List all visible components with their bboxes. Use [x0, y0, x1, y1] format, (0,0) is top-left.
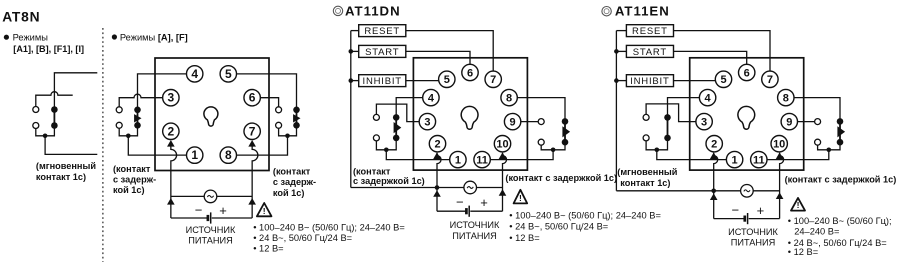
svg-text:4: 4 — [191, 67, 198, 81]
svg-text:1: 1 — [732, 154, 738, 166]
keyhole AT11DN — [461, 106, 478, 129]
pin 4 AT11EN — [699, 89, 715, 105]
svg-text:+: + — [219, 203, 227, 218]
svg-text:контакт 1с): контакт 1с) — [620, 178, 670, 188]
contact K3 common joiner — [376, 138, 396, 150]
wire K1 common to pin1 — [128, 136, 194, 155]
svg-text:3: 3 — [701, 116, 707, 128]
svg-text:1: 1 — [191, 148, 198, 162]
keyhole AT11EN — [738, 106, 755, 129]
wire bottom rail of instantaneous contact — [45, 136, 97, 155]
wire right power vertical EN — [780, 153, 784, 219]
contact K0 fixed terminal top — [33, 107, 39, 113]
svg-text:7: 7 — [767, 74, 773, 86]
pin 5 AT11EN — [715, 71, 731, 87]
contact K1 moving dot top — [134, 107, 141, 114]
junction K6 common — [827, 148, 832, 153]
svg-text:• 24 В~, 50/60 Гц/24 В=: • 24 В~, 50/60 Гц/24 В= — [509, 222, 608, 232]
contact K2 movable bar — [296, 110, 298, 126]
svg-text:10: 10 — [773, 138, 785, 150]
svg-text:+: + — [757, 203, 765, 218]
svg-text:кой 1с): кой 1с) — [113, 185, 145, 195]
svg-text:−: − — [732, 203, 740, 218]
contact K4 fixed terminal bottom — [538, 139, 544, 145]
svg-text:Режимы: Режимы — [13, 32, 49, 42]
pin 3 AT8N — [163, 90, 179, 106]
svg-text:INHIBIT: INHIBIT — [630, 76, 669, 87]
contact K3 movable bar — [395, 117, 397, 137]
svg-text:5: 5 — [720, 74, 726, 86]
junction START common DN — [349, 49, 354, 54]
contact K0 moving dot top — [51, 106, 58, 113]
contact K4 moving dot bottom — [562, 139, 569, 146]
svg-text:(мгновенный: (мгновенный — [36, 161, 96, 171]
wire RESET to pin7 EN — [674, 31, 771, 80]
contact K1 movable bar — [137, 110, 139, 126]
wire control common vertical DN — [350, 31, 352, 188]
svg-text:INHIBIT: INHIBIT — [363, 76, 402, 87]
pin 4 AT11DN — [423, 89, 439, 105]
pin 8 AT11EN — [778, 89, 794, 105]
contact K6 fixed terminal bottom — [815, 139, 821, 145]
battery symbol AT8N — [207, 215, 210, 221]
svg-text:−: − — [195, 202, 203, 217]
battery symbol EN — [743, 216, 746, 222]
arrow to pin10 EN — [776, 152, 784, 159]
contact K2 fixed terminal bottom — [276, 122, 282, 128]
wire pin4 feed to left contact EN — [668, 98, 708, 118]
pin 6 AT11EN — [739, 64, 755, 80]
wire K5 common to pin1 EN — [657, 150, 735, 160]
svg-text:!: ! — [519, 193, 522, 203]
contact K6 moving dot bottom — [837, 139, 844, 146]
pin 10 AT11DN — [494, 136, 510, 152]
pin 8 AT8N — [220, 147, 236, 163]
contact K4 fixed terminal top — [538, 119, 544, 125]
svg-text:11: 11 — [753, 154, 765, 166]
contact K2 moving dot bottom — [293, 122, 300, 129]
wire START stub DN — [351, 50, 359, 52]
svg-text:(мгновенный: (мгновенный — [617, 167, 677, 177]
contact K5 movable bar — [667, 117, 669, 137]
svg-text:RESET: RESET — [364, 26, 400, 37]
svg-text:+: + — [480, 195, 488, 210]
svg-text:(контакт: (контакт — [273, 167, 311, 177]
AC source symbol EN — [741, 185, 754, 198]
contact K4 moving dot top — [562, 118, 569, 125]
contact K2 fixed terminal top — [276, 107, 282, 113]
wire left power vertical DN — [437, 153, 441, 211]
contact K4 common joiner — [541, 142, 565, 150]
contact K5 common joiner — [646, 138, 667, 150]
contact K5 moving dot top — [664, 114, 671, 121]
arrow at right AC junction DN — [499, 189, 507, 196]
contact K3 moving dot bottom — [393, 135, 400, 142]
svg-text:• 24 В~, 50/60 Гц/24 В=: • 24 В~, 50/60 Гц/24 В= — [253, 233, 352, 243]
wire pin8 feed to right contact DN — [509, 98, 565, 122]
svg-text:ИСТОЧНИК: ИСТОЧНИК — [728, 227, 778, 237]
svg-text:5: 5 — [444, 74, 450, 86]
wire K6 common to pin11 EN — [759, 150, 829, 160]
pin 7 AT11DN — [485, 71, 501, 87]
pin 7 AT11EN — [762, 71, 778, 87]
svg-text:7: 7 — [490, 74, 496, 86]
contact K1 moving dot bottom — [134, 122, 141, 129]
svg-text:−: − — [456, 194, 464, 209]
wire right power vertical AT8N — [252, 146, 258, 218]
wire K4 common to pin11 DN — [482, 150, 553, 160]
contact K3 moving dot top — [393, 114, 400, 121]
contact K4 movable bar — [564, 121, 566, 142]
wire right power vertical DN — [503, 153, 507, 211]
svg-text:Режимы [A], [F]: Режимы [A], [F] — [120, 32, 188, 42]
wire pin4 feed to left delayed contact — [138, 74, 195, 110]
wire pin9 to right contact EN — [789, 121, 817, 123]
arrow to pin2 EN — [710, 152, 718, 159]
junction INHIBIT common EN — [614, 78, 619, 83]
svg-text:• 100–240 В~ (50/60 Гц); 24–24: • 100–240 В~ (50/60 Гц); 24–240 В= — [253, 223, 405, 233]
svg-text:AT8N: AT8N — [2, 9, 40, 24]
contact K2 common joiner — [279, 125, 297, 136]
junction K1 common — [126, 134, 131, 139]
contact K6 moving dot top — [837, 118, 844, 125]
box INHIBIT EN — [626, 75, 673, 87]
header modes column 2 — [112, 34, 117, 39]
wire INHIBIT stub DN — [351, 80, 359, 82]
wire RESET stub DN — [351, 30, 359, 32]
warning triangle DN — [514, 190, 528, 204]
wire K3 common to pin1 DN — [386, 150, 458, 160]
svg-text:9: 9 — [510, 116, 516, 128]
wire pin6 to right contact — [252, 98, 278, 110]
svg-text:24–240 В=: 24–240 В= — [794, 226, 839, 236]
junction AC rail left DN — [435, 185, 440, 190]
arrow at left AC junction EN — [710, 193, 718, 200]
svg-text:3: 3 — [424, 116, 430, 128]
contact K3 fixed terminal top — [373, 114, 379, 120]
svg-text:контакт 1с): контакт 1с) — [36, 172, 86, 182]
wire INHIBIT to pin5 DN — [406, 80, 447, 82]
svg-text:с задержкой 1с): с задержкой 1с) — [353, 176, 425, 186]
keyhole AT8N — [204, 107, 218, 126]
warning triangle EN — [791, 198, 805, 211]
contact K1 delay triangle — [134, 114, 141, 122]
svg-text:8: 8 — [225, 148, 232, 162]
box RESET DN — [359, 25, 406, 37]
pin 2 AT11DN — [429, 136, 445, 152]
pin 10 AT11EN — [771, 136, 787, 152]
column separator dotted line — [102, 28, 104, 262]
svg-text:ПИТАНИЯ: ПИТАНИЯ — [188, 236, 233, 246]
arrow to pin2 — [167, 140, 175, 147]
AC source symbol AT8N — [204, 190, 217, 203]
socket AT11DN outline — [413, 58, 527, 170]
contact K3 fixed terminal bottom — [373, 135, 379, 141]
wire pin8 feed to right contact EN — [786, 98, 840, 122]
svg-text:ИСТОЧНИК: ИСТОЧНИК — [186, 225, 236, 235]
svg-text:2: 2 — [711, 138, 717, 150]
contact K1 fixed terminal bottom — [116, 122, 122, 128]
pin 11 AT11EN — [751, 151, 767, 167]
svg-text:START: START — [365, 47, 399, 58]
contact K6 common joiner — [818, 142, 840, 150]
svg-text:AT11EN: AT11EN — [615, 3, 670, 18]
svg-text:ПИТАНИЯ: ПИТАНИЯ — [731, 238, 776, 248]
battery symbol DN — [465, 208, 468, 214]
pin 1 AT11EN — [726, 151, 742, 167]
arrow to pin10 DN — [499, 152, 507, 159]
svg-text:RESET: RESET — [632, 26, 668, 37]
socket AT8N outline — [155, 58, 269, 171]
contact K6 fixed terminal top — [815, 119, 821, 125]
svg-text:• 100–240 В~ (50/60 Гц);: • 100–240 В~ (50/60 Гц); — [788, 216, 892, 226]
wire top rail of instantaneous contact — [54, 73, 97, 110]
contact K1 common joiner — [119, 125, 137, 136]
title AT11EN symbol — [602, 7, 611, 16]
arrow at left AC junction — [167, 198, 175, 205]
svg-text:!: ! — [263, 206, 266, 216]
pin 9 AT11DN — [504, 113, 520, 129]
junction K4 common — [551, 148, 556, 153]
svg-text:3: 3 — [168, 91, 175, 105]
box START EN — [626, 45, 673, 57]
pin 1 AT8N — [187, 147, 203, 163]
wire pin9 to right contact DN — [513, 121, 542, 123]
arrow to pin7 — [248, 140, 256, 147]
arrow at right AC junction EN — [776, 192, 784, 199]
svg-text:(контакт с задержкой 1с): (контакт с задержкой 1с) — [505, 173, 617, 183]
contact K0 moving dot bottom — [51, 122, 58, 129]
wire RESET stub EN — [616, 30, 626, 32]
wire pin3 Z-link DN — [376, 104, 427, 122]
svg-text:10: 10 — [496, 138, 508, 150]
wire bottom rail AT8N — [171, 217, 208, 219]
wire pin5 feed to right delayed contact — [228, 74, 296, 110]
pin 3 AT11EN — [696, 113, 712, 129]
contact K0 fixed terminal bottom — [33, 123, 39, 129]
wire left power vertical EN — [714, 153, 718, 219]
svg-text:(контакт: (контакт — [113, 164, 151, 174]
svg-text:11: 11 — [476, 154, 488, 166]
pin 3 AT11DN — [419, 113, 435, 129]
pin 5 AT8N — [220, 66, 236, 82]
pin 4 AT8N — [187, 66, 203, 82]
wire NC stub with crossover hop — [36, 92, 73, 110]
wire AC rail EN — [616, 190, 779, 192]
svg-text:2: 2 — [434, 138, 440, 150]
contact K6 movable bar — [839, 121, 841, 142]
svg-text:5: 5 — [225, 67, 232, 81]
socket AT11EN outline — [690, 58, 804, 170]
pin 9 AT11EN — [781, 113, 797, 129]
box START DN — [359, 45, 406, 57]
junction standalone common — [43, 134, 48, 139]
pin 6 AT11DN — [462, 64, 478, 80]
svg-text:4: 4 — [428, 92, 435, 104]
svg-text:• 12 В=: • 12 В= — [788, 247, 818, 257]
wire START stub EN — [616, 50, 626, 52]
svg-text:ИСТОЧНИК: ИСТОЧНИК — [450, 220, 500, 230]
contact K1 fixed terminal top — [116, 107, 122, 113]
wire INHIBIT to pin5 EN — [674, 80, 724, 82]
svg-text:START: START — [633, 47, 667, 58]
contact K5 fixed terminal top — [643, 114, 649, 120]
wire AC rail DN — [351, 187, 503, 189]
svg-text:ПИТАНИЯ: ПИТАНИЯ — [452, 231, 497, 241]
junction START common EN — [614, 49, 619, 54]
contact K4 delay triangle — [562, 126, 570, 137]
contact K3 delay triangle — [394, 122, 402, 133]
svg-text:6: 6 — [744, 67, 750, 79]
pin 8 AT11DN — [501, 89, 517, 105]
box RESET EN — [626, 25, 673, 37]
svg-text:!: ! — [797, 200, 800, 210]
wire INHIBIT stub EN — [616, 80, 626, 82]
svg-text:8: 8 — [783, 92, 789, 104]
svg-text:с задерж-: с задерж- — [113, 174, 156, 184]
junction K2 common — [285, 134, 290, 139]
wire left power vertical AT8N — [171, 146, 177, 218]
svg-text:с задерж-: с задерж- — [273, 177, 316, 187]
wire bottom rail EN — [714, 218, 745, 220]
box INHIBIT DN — [359, 75, 406, 87]
svg-text:6: 6 — [249, 91, 256, 105]
svg-text:• 100–240 В~ (50/60 Гц); 24–24: • 100–240 В~ (50/60 Гц); 24–240 В= — [509, 210, 661, 220]
svg-text:(контакт с задержкой 1с): (контакт с задержкой 1с) — [785, 175, 897, 185]
contact K0 movable bar — [53, 110, 55, 126]
wire control common vertical EN — [615, 31, 617, 191]
wire pin3 Z-link EN — [646, 104, 704, 122]
header modes column 1 — [4, 35, 9, 40]
junction K5 common — [655, 148, 660, 153]
contact K5 moving dot bottom — [664, 135, 671, 142]
svg-text:2: 2 — [168, 124, 175, 138]
svg-text:9: 9 — [786, 116, 792, 128]
svg-text:8: 8 — [506, 92, 512, 104]
contact K5 fixed terminal bottom — [643, 135, 649, 141]
svg-text:кой 1с): кой 1с) — [273, 188, 305, 198]
AC source symbol DN — [464, 181, 477, 194]
svg-text:[A1], [B], [F1], [I]: [A1], [B], [F1], [I] — [13, 44, 84, 54]
arrow to pin2 DN — [433, 152, 441, 159]
contact K2 moving dot top — [293, 107, 300, 114]
svg-text:6: 6 — [467, 67, 473, 79]
contact K6 delay triangle — [837, 126, 845, 137]
pin 6 AT8N — [244, 90, 260, 106]
svg-text:• 12 В=: • 12 В= — [509, 233, 539, 243]
warning triangle AT8N — [257, 203, 272, 216]
arrow at right AC junction — [248, 198, 256, 205]
wire START to pin6 EN — [674, 51, 747, 72]
arrow at left AC junction DN — [433, 190, 441, 197]
pin 7 AT8N — [244, 123, 260, 139]
svg-text:AT11DN: AT11DN — [345, 3, 401, 18]
title AT11DN symbol — [333, 6, 342, 15]
wire bottom rail DN — [437, 210, 466, 212]
contact K0 common joiner — [36, 126, 55, 136]
junction INHIBIT common DN — [349, 78, 354, 83]
pin 5 AT11DN — [439, 71, 455, 87]
wire RESET to pin7 DN — [406, 31, 493, 80]
junction AC rail left EN — [711, 189, 716, 194]
pin 2 AT11EN — [706, 136, 722, 152]
svg-text:1: 1 — [455, 154, 461, 166]
wire START to pin6 DN — [406, 51, 470, 72]
pin 1 AT11DN — [450, 151, 466, 167]
pin 11 AT11DN — [474, 151, 490, 167]
svg-text:7: 7 — [249, 124, 256, 138]
contact K2 delay triangle — [293, 114, 300, 122]
svg-text:• 12 В=: • 12 В= — [253, 244, 283, 254]
wire AC rail AT8N — [171, 195, 252, 197]
pin 2 AT8N — [163, 123, 179, 139]
wire K2 common to pin8 — [228, 136, 287, 155]
svg-text:4: 4 — [705, 92, 712, 104]
wire pin4 feed to left contact DN — [396, 98, 431, 118]
wire pin3 to left contact with hop — [119, 94, 171, 110]
junction K3 common — [384, 148, 389, 153]
